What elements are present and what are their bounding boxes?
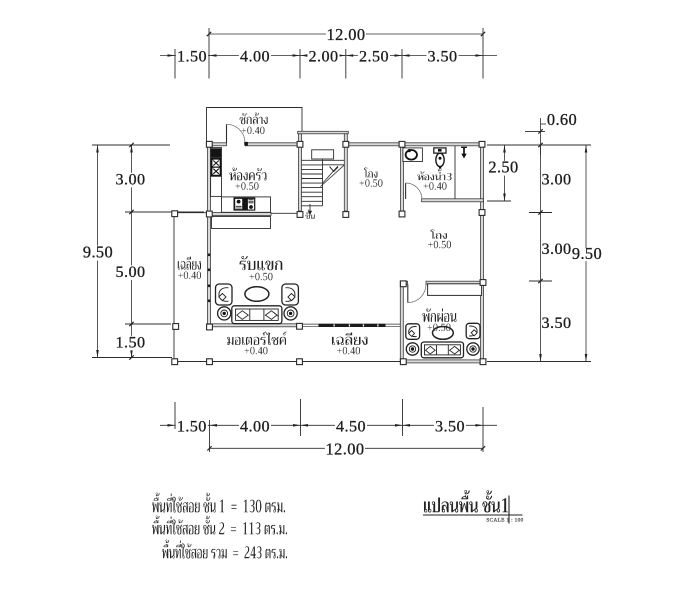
- column: [399, 141, 405, 147]
- stove dark unit: [234, 197, 256, 210]
- dim 2.50 bath: [487, 161, 520, 176]
- kitchen pass-through counter: [212, 217, 271, 229]
- arrow 3.50 left: [402, 54, 410, 57]
- dim 2.00 top: [307, 50, 339, 65]
- porch label left: [178, 256, 201, 269]
- west wall kitchen section: [208, 146, 211, 213]
- column: [173, 324, 179, 330]
- arrow 2.00 right: [338, 54, 346, 57]
- stair up arrow bottom: [308, 204, 312, 215]
- bathroom left wall: [401, 146, 404, 211]
- kitchen bottom counter outline: [222, 197, 271, 212]
- tick: [129, 210, 133, 214]
- dimension line 12.00 top: [209, 33, 483, 35]
- label motorcycle porch: [227, 332, 286, 345]
- tick: [129, 143, 133, 147]
- arrow 4.50 r: [395, 424, 403, 427]
- dim line 9.50 left: [97, 145, 99, 358]
- porch left level +0.40: [178, 272, 201, 279]
- column: [206, 211, 212, 217]
- ext stubs bottom: [175, 399, 483, 452]
- dim line 12.00 bottom: [210, 447, 484, 449]
- column: [400, 281, 406, 287]
- phakphon sofa: [421, 342, 463, 358]
- kitchen counter left outline: [211, 148, 222, 197]
- phakphon door leaf: [407, 284, 409, 302]
- tick: [538, 143, 542, 147]
- hall level lower +0.50: [428, 241, 451, 248]
- living side table left: [218, 307, 231, 320]
- svg-text:2.50: 2.50: [488, 158, 518, 177]
- column: [207, 359, 213, 365]
- area text line 2: [152, 515, 287, 534]
- svg-text:SCALE 1 : 100: SCALE 1 : 100: [486, 518, 523, 524]
- arrow 1.50 outside: [168, 424, 176, 427]
- svg-text:12.00: 12.00: [326, 440, 365, 459]
- column: [479, 210, 485, 216]
- porch bottom level +0.40: [337, 347, 360, 354]
- south wall living segment: [207, 324, 303, 327]
- column: [297, 141, 303, 147]
- stair bay right wall upper: [344, 134, 347, 143]
- dim 1.50 left: [114, 336, 146, 351]
- arrow 2.00 left: [300, 54, 308, 57]
- svg-text:12.00: 12.00: [327, 25, 366, 44]
- title vertical bar: [508, 496, 510, 524]
- phakphon top wall main seg: [426, 281, 485, 284]
- tick: [207, 32, 211, 36]
- tick: [481, 32, 485, 36]
- phakphon level +0.50: [427, 324, 450, 331]
- svg-text:3.50: 3.50: [542, 314, 572, 332]
- wash basin: [403, 148, 423, 162]
- dim 2.50 top: [358, 50, 390, 65]
- bathroom bottom wall: [422, 199, 484, 202]
- svg-text:2.50: 2.50: [359, 48, 389, 66]
- phakphon armchair left: [406, 324, 420, 340]
- column: [343, 141, 349, 147]
- dim 1.50 bottom: [176, 420, 208, 435]
- laundry door leaf: [226, 124, 228, 143]
- living armchair right: [282, 284, 299, 305]
- column: [480, 359, 486, 365]
- west wall hatch dashes: [208, 254, 210, 303]
- svg-text:3.50: 3.50: [428, 48, 458, 66]
- room label kitchen: [229, 168, 266, 181]
- dim 12.00 bottom: [325, 443, 365, 458]
- tick: [538, 210, 542, 214]
- dim 3.50 top: [426, 50, 458, 65]
- north wall kitchen segment: [245, 143, 300, 146]
- stair arrowhead V: [330, 167, 339, 172]
- column: [343, 212, 349, 218]
- north wall hall-bath segment: [346, 143, 485, 146]
- stair center stringer: [322, 150, 324, 206]
- left porch outline: [174, 213, 401, 362]
- dim line 9.50 right: [585, 145, 587, 362]
- laundry room outline: [207, 108, 303, 145]
- tick: [538, 129, 542, 133]
- dimension extension lines top: [175, 28, 483, 79]
- ext lines left: [92, 145, 204, 358]
- column: [206, 141, 212, 147]
- dim chain left: [131, 145, 133, 358]
- living sofa: [232, 306, 282, 324]
- living armchair left: [216, 284, 233, 305]
- dimension text 12.00 top: [326, 28, 366, 43]
- column: [172, 211, 178, 217]
- arrow 1.50 left outside: [168, 54, 176, 57]
- phakphon cabinet: [428, 284, 482, 296]
- living level +0.50: [249, 273, 272, 280]
- motorcycle level +0.40: [244, 347, 267, 354]
- svg-text:1.50: 1.50: [116, 334, 146, 352]
- kitchen-stair wall thin: [271, 212, 299, 214]
- dim 0.60 vertical line: [540, 118, 542, 155]
- a: [503, 145, 506, 153]
- phakphon armchair right: [466, 323, 480, 338]
- phakphon side table left: [406, 343, 418, 355]
- bathroom door leaf: [405, 183, 407, 199]
- a: [503, 194, 506, 202]
- area text line 3: [162, 539, 287, 558]
- column: [400, 359, 406, 365]
- dim chain right: [540, 145, 542, 362]
- dim 1.50 top: [176, 50, 208, 65]
- arrow 4.00 r: [293, 424, 301, 427]
- svg-text:3.00: 3.00: [116, 171, 146, 189]
- laundry door arc: [227, 124, 246, 143]
- tick: [129, 322, 133, 326]
- kitchen level +0.50: [235, 182, 258, 189]
- stove right burner cell: [248, 199, 254, 210]
- dim 0.60 leader: [541, 123, 547, 125]
- stair break line: [321, 165, 345, 187]
- arrow 3.50 r: [476, 424, 484, 427]
- column: [480, 280, 486, 286]
- phakphon top wall west seg: [400, 281, 407, 284]
- room label laundry: [240, 113, 268, 125]
- a: [585, 145, 588, 153]
- svg-text:1.50: 1.50: [177, 48, 207, 66]
- dim 5.00 left: [114, 265, 146, 280]
- a: [539, 354, 542, 362]
- stair upper landing well: [312, 150, 334, 159]
- a: [96, 145, 99, 153]
- stair treads: [302, 160, 345, 206]
- stair up label: [305, 209, 315, 219]
- dim 3.50 bottom: [434, 420, 466, 435]
- dimension chain line top: [160, 55, 497, 57]
- toilet: [434, 148, 446, 169]
- svg-text:0.60: 0.60: [547, 110, 577, 129]
- stair bay top wall: [298, 131, 349, 134]
- living oval table: [245, 287, 269, 302]
- column: [172, 359, 178, 365]
- arrow at wall tick: [209, 54, 217, 57]
- ext lines right: [487, 131, 591, 361]
- column: [399, 211, 405, 217]
- stair left wall: [299, 146, 302, 211]
- dim 4.00 bottom: [239, 420, 271, 435]
- column: [479, 141, 485, 147]
- room label living: [240, 256, 283, 270]
- a: [585, 354, 588, 362]
- arrow at wall: [210, 424, 218, 427]
- column: [297, 323, 303, 329]
- phakphon oval table: [433, 327, 454, 340]
- kitchen sink basin 2: [212, 168, 219, 175]
- porch railing base line bottom: [302, 326, 401, 328]
- living side table right: [284, 307, 297, 320]
- phakphon side table right: [467, 343, 479, 355]
- kitchen fridge dark block: [211, 148, 221, 157]
- svg-text:9.50: 9.50: [83, 243, 113, 262]
- column: [207, 324, 213, 330]
- arrow 3.50 right: [476, 54, 484, 57]
- room label bathroom: [417, 169, 451, 180]
- dim 4.00 top: [239, 50, 271, 65]
- svg-text:4.00: 4.00: [240, 417, 270, 435]
- arrow 2.50 left: [346, 54, 354, 57]
- hall level upper +0.50: [359, 179, 382, 186]
- stove left burner cell: [235, 199, 242, 209]
- dim 9.50 left: [82, 246, 115, 261]
- phakphon left wall: [400, 284, 403, 360]
- tick: [538, 279, 542, 283]
- porch railing base line top: [302, 323, 401, 325]
- a: [130, 145, 133, 153]
- bathroom partition: [454, 146, 456, 199]
- arrow 3.50 l: [403, 424, 411, 427]
- arrow 4.00 right: [293, 54, 301, 57]
- svg-text:4.00: 4.00: [240, 48, 270, 66]
- kitchen bottom wall: [207, 213, 272, 216]
- a: [96, 350, 99, 358]
- svg-text:3.00: 3.00: [542, 240, 572, 258]
- dim 4.50 bottom: [335, 420, 367, 435]
- title underline: [423, 514, 523, 516]
- laundry level +0.40: [241, 127, 264, 134]
- north wall west segment: [207, 143, 227, 146]
- stair right wall: [344, 146, 347, 211]
- bathroom level +0.40: [423, 182, 446, 189]
- column: [297, 359, 303, 365]
- svg-text:2.00: 2.00: [309, 48, 339, 66]
- a: [130, 350, 133, 358]
- svg-text:3.50: 3.50: [435, 417, 465, 435]
- svg-text:5.00: 5.00: [116, 263, 146, 281]
- room label phakphon: [422, 309, 456, 323]
- tick: [129, 355, 133, 359]
- arrow 2.50 right: [395, 54, 403, 57]
- tick: [207, 446, 211, 450]
- svg-text:1.50: 1.50: [177, 417, 207, 435]
- stair bay left wall upper: [299, 134, 302, 143]
- kitchen sink basin 1: [212, 160, 219, 167]
- porch railing dark segments: [319, 324, 386, 327]
- hall label lower: [430, 230, 446, 239]
- arrow 4.50 l: [301, 424, 309, 427]
- porch label bottom: [332, 332, 368, 345]
- kitchen sink unit dark: [211, 158, 221, 177]
- floor drain arrow: [461, 147, 467, 158]
- phakphon door arc: [408, 284, 426, 302]
- svg-text:9.50: 9.50: [572, 244, 602, 263]
- hall label upper: [364, 168, 377, 178]
- dim 3.00 left: [114, 173, 146, 188]
- drawing title: [424, 490, 508, 513]
- west wall living section: [208, 216, 211, 327]
- dim line 2.50 bath: [504, 145, 506, 201]
- dim chain bottom: [160, 424, 497, 426]
- bathroom door arc: [406, 183, 422, 199]
- east wall: [481, 146, 484, 363]
- stair arrow line: [322, 166, 338, 183]
- laundry door sill: [244, 142, 248, 146]
- column: [297, 212, 303, 218]
- svg-text:4.50: 4.50: [336, 417, 366, 435]
- phakphon bottom wall: [400, 360, 485, 363]
- tick: [481, 446, 485, 450]
- svg-text:3.00: 3.00: [542, 171, 572, 189]
- dim 9.50 right: [572, 248, 603, 261]
- area text line 1: [152, 492, 285, 512]
